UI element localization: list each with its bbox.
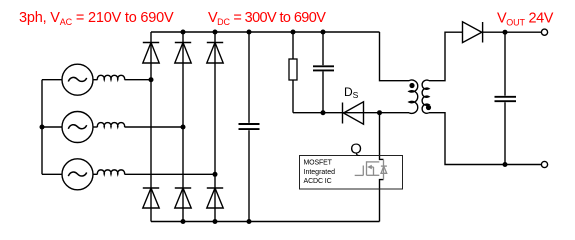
- svg-text:ACDC IC: ACDC IC: [304, 178, 332, 185]
- svg-text:3ph, VAC = 210V to 690V: 3ph, VAC = 210V to 690V: [19, 10, 174, 27]
- svg-text:MOSFET: MOSFET: [304, 159, 333, 166]
- svg-text:VOUT 24V: VOUT 24V: [497, 11, 554, 28]
- svg-text:Q: Q: [350, 141, 362, 158]
- svg-text:Integrated: Integrated: [304, 169, 336, 176]
